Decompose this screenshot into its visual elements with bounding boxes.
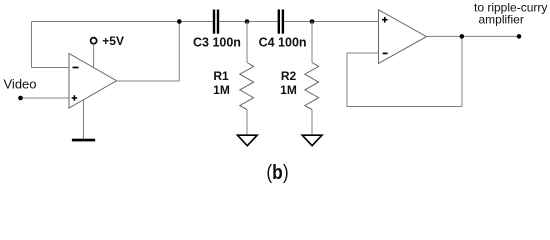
svg-text:Video: Video [4,76,37,91]
wire U2 feedback (minus input loop) [347,36,462,106]
wire feedback U1 left vertical + minus input [32,22,70,68]
wire node B down to R1 [246,22,248,63]
capacitor C3 [213,10,219,34]
node C (C4/R2) [310,19,315,24]
wire C3 to C4 [219,21,277,23]
wire node C down to R2 [311,22,313,63]
svg-text:amplifier: amplifier [479,12,524,26]
label Video [4,76,37,91]
wire R1 to ground [246,110,248,136]
label output destination [474,0,547,26]
label +5V [102,34,124,48]
label (b) caption [266,162,288,185]
ground R2 (open triangle) [302,135,322,146]
svg-text:C4 100n: C4 100n [259,36,307,50]
label R1 [213,69,230,97]
label C3 value [193,36,241,50]
capacitor C4 [278,10,285,34]
ground U1 (bar) [72,100,95,142]
svg-text:R2: R2 [281,69,297,83]
node B (C3/C4/R1) [245,19,250,24]
wire top rail left (feedback top to C3) [32,21,213,23]
label R2 [280,69,297,97]
svg-text:C3 100n: C3 100n [193,36,241,50]
wire U1 output stub [117,80,180,82]
op-amp U1 [69,54,117,109]
svg-text:(b): (b) [266,162,288,185]
svg-text:R1: R1 [213,69,229,83]
node A (U1 output / C3) [177,19,182,24]
resistor R2 [305,63,319,110]
node video input terminal [18,96,23,101]
svg-text:1M: 1M [280,83,297,97]
ground R1 (open triangle) [237,135,257,146]
node D (U2 output / feedback) [460,34,465,39]
svg-text:1M: 1M [213,83,230,97]
node E (output terminal) [517,34,522,39]
wire R2 to ground [311,110,313,136]
op-amp U2 [379,10,427,64]
wire video input [21,97,70,99]
svg-text:+5V: +5V [102,34,124,48]
power +5V symbol [91,38,97,68]
wire C4 to U2 plus input [284,21,378,23]
wire U1 output up to top rail [178,22,180,82]
label C4 value [259,36,307,50]
wire U2 output [427,35,520,37]
resistor R1 [240,63,254,110]
